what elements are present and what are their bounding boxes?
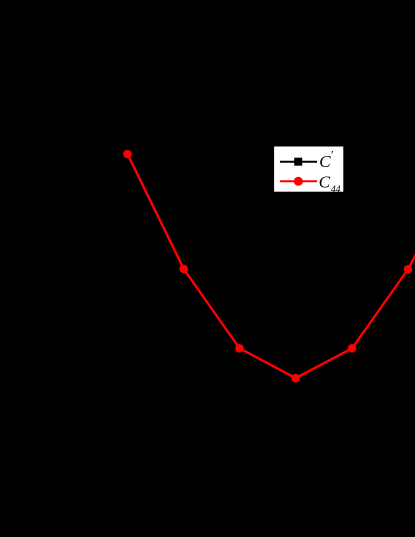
- legend box: [274, 146, 344, 192]
- marker C44 point 4: [291, 374, 300, 383]
- marker C44 point 2: [179, 265, 188, 274]
- legend C44 line: [280, 180, 317, 182]
- svg-text:′: ′: [330, 148, 333, 162]
- marker C44 point 6: [404, 265, 413, 274]
- legend C' line: [280, 161, 317, 163]
- marker C44 point 3: [235, 344, 244, 353]
- legend C44 circle marker: [294, 177, 303, 186]
- svg-text:C: C: [319, 172, 331, 191]
- marker C44 point 5: [348, 344, 357, 353]
- svg-text:44: 44: [331, 185, 341, 195]
- marker C44 point 1: [123, 150, 132, 159]
- legend C' square marker: [294, 158, 302, 166]
- curve C44 polyline: [128, 154, 415, 378]
